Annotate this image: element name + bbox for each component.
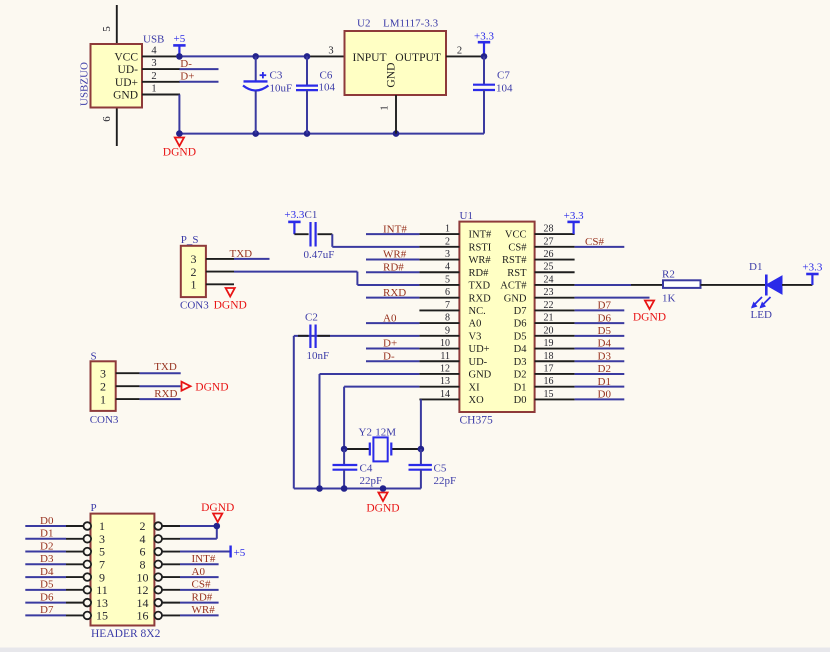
svg-text:D1: D1 [514, 382, 527, 393]
svg-text:D0: D0 [40, 515, 54, 527]
svg-text:8: 8 [445, 313, 450, 324]
svg-text:HEADER 8X2: HEADER 8X2 [91, 628, 161, 640]
svg-text:D-: D- [383, 350, 395, 362]
svg-text:D0: D0 [514, 395, 527, 406]
svg-text:LM1117-3.3: LM1117-3.3 [383, 18, 439, 30]
svg-text:RST: RST [507, 268, 527, 279]
svg-text:11: 11 [440, 351, 450, 362]
svg-text:0.47uF: 0.47uF [304, 249, 335, 261]
svg-text:GND: GND [504, 293, 527, 304]
svg-text:D6: D6 [598, 312, 612, 324]
svg-text:D7: D7 [598, 300, 612, 312]
svg-text:D+: D+ [180, 71, 194, 83]
svg-text:RXD: RXD [383, 287, 406, 299]
svg-text:RD#: RD# [192, 591, 213, 603]
svg-text:104: 104 [496, 83, 513, 95]
svg-text:VCC: VCC [114, 51, 138, 63]
svg-text:17: 17 [544, 363, 554, 374]
svg-text:NC.: NC. [469, 306, 486, 317]
svg-text:D+: D+ [383, 338, 397, 350]
svg-text:WR#: WR# [383, 249, 407, 261]
svg-text:CS#: CS# [192, 579, 211, 591]
svg-text:3: 3 [328, 46, 333, 57]
svg-text:A0: A0 [383, 312, 397, 324]
svg-text:XO: XO [469, 395, 485, 406]
svg-text:2: 2 [100, 379, 106, 393]
svg-text:GND: GND [385, 62, 398, 87]
svg-text:D3: D3 [40, 553, 54, 565]
svg-text:D2: D2 [40, 540, 53, 552]
svg-text:2: 2 [445, 236, 450, 247]
svg-text:INT#: INT# [469, 230, 492, 241]
svg-text:5: 5 [101, 26, 113, 32]
svg-text:P: P [91, 502, 97, 514]
svg-text:+3.3: +3.3 [284, 209, 304, 221]
svg-text:RXD: RXD [154, 388, 177, 400]
svg-text:C6: C6 [320, 70, 333, 82]
svg-text:1K: 1K [662, 293, 676, 305]
svg-text:12: 12 [440, 363, 450, 374]
svg-text:P_S: P_S [181, 234, 199, 246]
svg-text:C2: C2 [305, 312, 318, 324]
svg-text:D7: D7 [40, 604, 54, 616]
svg-text:UD+: UD+ [115, 77, 138, 89]
svg-text:18: 18 [544, 351, 554, 362]
svg-text:RSTI: RSTI [469, 242, 492, 253]
svg-text:D2: D2 [598, 363, 611, 375]
svg-text:VCC: VCC [505, 230, 527, 241]
svg-text:RXD: RXD [469, 293, 492, 304]
svg-text:16: 16 [544, 376, 554, 387]
svg-text:27: 27 [544, 236, 554, 247]
svg-text:4: 4 [445, 262, 450, 273]
svg-text:A0: A0 [192, 566, 206, 578]
svg-text:UD-: UD- [469, 357, 488, 368]
svg-text:21: 21 [544, 313, 554, 324]
svg-text:WR#: WR# [469, 255, 492, 266]
svg-text:D6: D6 [514, 319, 527, 330]
svg-text:DGND: DGND [214, 300, 247, 312]
svg-text:26: 26 [544, 249, 554, 260]
svg-text:D5: D5 [40, 579, 54, 591]
svg-text:16: 16 [137, 609, 149, 623]
svg-text:U1: U1 [460, 210, 473, 222]
svg-text:D2: D2 [514, 370, 527, 381]
svg-text:INPUT: INPUT [353, 51, 387, 64]
svg-text:TXD: TXD [230, 248, 253, 260]
svg-text:Y2: Y2 [359, 427, 372, 439]
svg-text:UD-: UD- [118, 64, 139, 76]
svg-text:INT#: INT# [192, 553, 216, 565]
svg-text:9: 9 [445, 325, 450, 336]
svg-text:USBZUO: USBZUO [79, 62, 91, 106]
svg-text:20: 20 [544, 325, 554, 336]
svg-text:USB: USB [143, 34, 164, 46]
svg-text:D5: D5 [514, 331, 527, 342]
svg-text:RD#: RD# [383, 261, 404, 273]
svg-text:LED: LED [751, 309, 772, 321]
svg-text:10nF: 10nF [307, 350, 330, 362]
svg-text:TXD: TXD [154, 361, 177, 373]
svg-text:25: 25 [544, 262, 554, 273]
svg-text:V3: V3 [469, 331, 482, 342]
svg-text:OUTPUT: OUTPUT [395, 51, 441, 64]
svg-text:6: 6 [101, 116, 113, 122]
svg-text:22pF: 22pF [360, 475, 383, 487]
svg-text:+5: +5 [174, 33, 186, 45]
svg-text:A0: A0 [469, 319, 482, 330]
svg-text:22: 22 [544, 300, 554, 311]
svg-text:D6: D6 [40, 591, 54, 603]
svg-text:RD#: RD# [469, 268, 490, 279]
svg-text:CH375: CH375 [460, 415, 493, 427]
svg-text:23: 23 [544, 287, 554, 298]
svg-text:+3.3: +3.3 [474, 31, 494, 43]
svg-text:TXD: TXD [469, 281, 491, 292]
svg-text:D4: D4 [598, 338, 612, 350]
svg-text:14: 14 [440, 389, 450, 400]
svg-text:3: 3 [100, 366, 106, 380]
svg-text:1: 1 [100, 392, 106, 406]
svg-text:3: 3 [151, 58, 156, 69]
svg-text:C1: C1 [305, 209, 318, 221]
svg-text:DGND: DGND [163, 147, 196, 159]
svg-text:S: S [91, 351, 97, 363]
svg-text:D-: D- [180, 58, 192, 70]
svg-text:104: 104 [319, 82, 336, 94]
svg-text:15: 15 [544, 389, 554, 400]
svg-text:XI: XI [469, 382, 481, 393]
svg-text:5: 5 [445, 274, 450, 285]
svg-text:7: 7 [445, 300, 450, 311]
svg-text:CS#: CS# [585, 236, 604, 248]
svg-text:24: 24 [544, 274, 554, 285]
svg-text:19: 19 [544, 338, 554, 349]
svg-text:D4: D4 [514, 344, 528, 355]
svg-text:UD+: UD+ [469, 344, 490, 355]
svg-text:GND: GND [469, 370, 492, 381]
svg-text:4: 4 [151, 45, 157, 56]
svg-text:DGND: DGND [633, 312, 666, 324]
svg-text:CON3: CON3 [180, 300, 209, 312]
svg-text:C7: C7 [497, 70, 510, 82]
svg-text:D3: D3 [598, 350, 612, 362]
svg-text:CON3: CON3 [90, 414, 119, 426]
svg-text:10: 10 [440, 338, 450, 349]
svg-text:WR#: WR# [192, 604, 216, 616]
svg-text:DGND: DGND [201, 502, 234, 514]
svg-text:U2: U2 [357, 18, 370, 30]
svg-text:+3.3: +3.3 [802, 262, 822, 274]
svg-text:+5: +5 [234, 547, 246, 559]
svg-text:6: 6 [445, 287, 450, 298]
svg-text:C4: C4 [360, 462, 373, 474]
svg-text:CS#: CS# [508, 242, 527, 253]
svg-text:ACT#: ACT# [500, 281, 527, 292]
svg-text:1: 1 [380, 105, 391, 110]
svg-text:3: 3 [445, 249, 450, 260]
svg-text:1: 1 [445, 224, 450, 235]
svg-text:D1: D1 [749, 261, 762, 273]
svg-text:C3: C3 [270, 70, 283, 82]
svg-text:GND: GND [113, 90, 138, 102]
svg-text:10uF: 10uF [270, 83, 293, 95]
svg-text:22pF: 22pF [434, 475, 457, 487]
svg-text:INT#: INT# [383, 223, 407, 235]
svg-text:DGND: DGND [195, 382, 228, 394]
svg-text:D3: D3 [514, 357, 527, 368]
svg-text:R2: R2 [662, 268, 675, 280]
svg-text:13: 13 [440, 376, 450, 387]
svg-text:2: 2 [457, 46, 462, 57]
svg-text:C5: C5 [434, 462, 447, 474]
svg-text:+3.3: +3.3 [564, 210, 584, 222]
svg-text:2: 2 [151, 71, 156, 82]
svg-text:28: 28 [544, 224, 554, 235]
svg-text:15: 15 [96, 609, 108, 623]
svg-text:D1: D1 [40, 528, 53, 540]
svg-text:12M: 12M [375, 427, 396, 439]
svg-text:D7: D7 [514, 306, 527, 317]
svg-text:DGND: DGND [366, 503, 399, 515]
svg-text:D1: D1 [598, 376, 611, 388]
svg-text:1: 1 [191, 278, 197, 292]
svg-text:RST#: RST# [502, 255, 527, 266]
svg-text:D5: D5 [598, 325, 612, 337]
svg-text:D0: D0 [598, 389, 612, 401]
svg-text:1: 1 [151, 84, 156, 95]
svg-text:D4: D4 [40, 566, 54, 578]
